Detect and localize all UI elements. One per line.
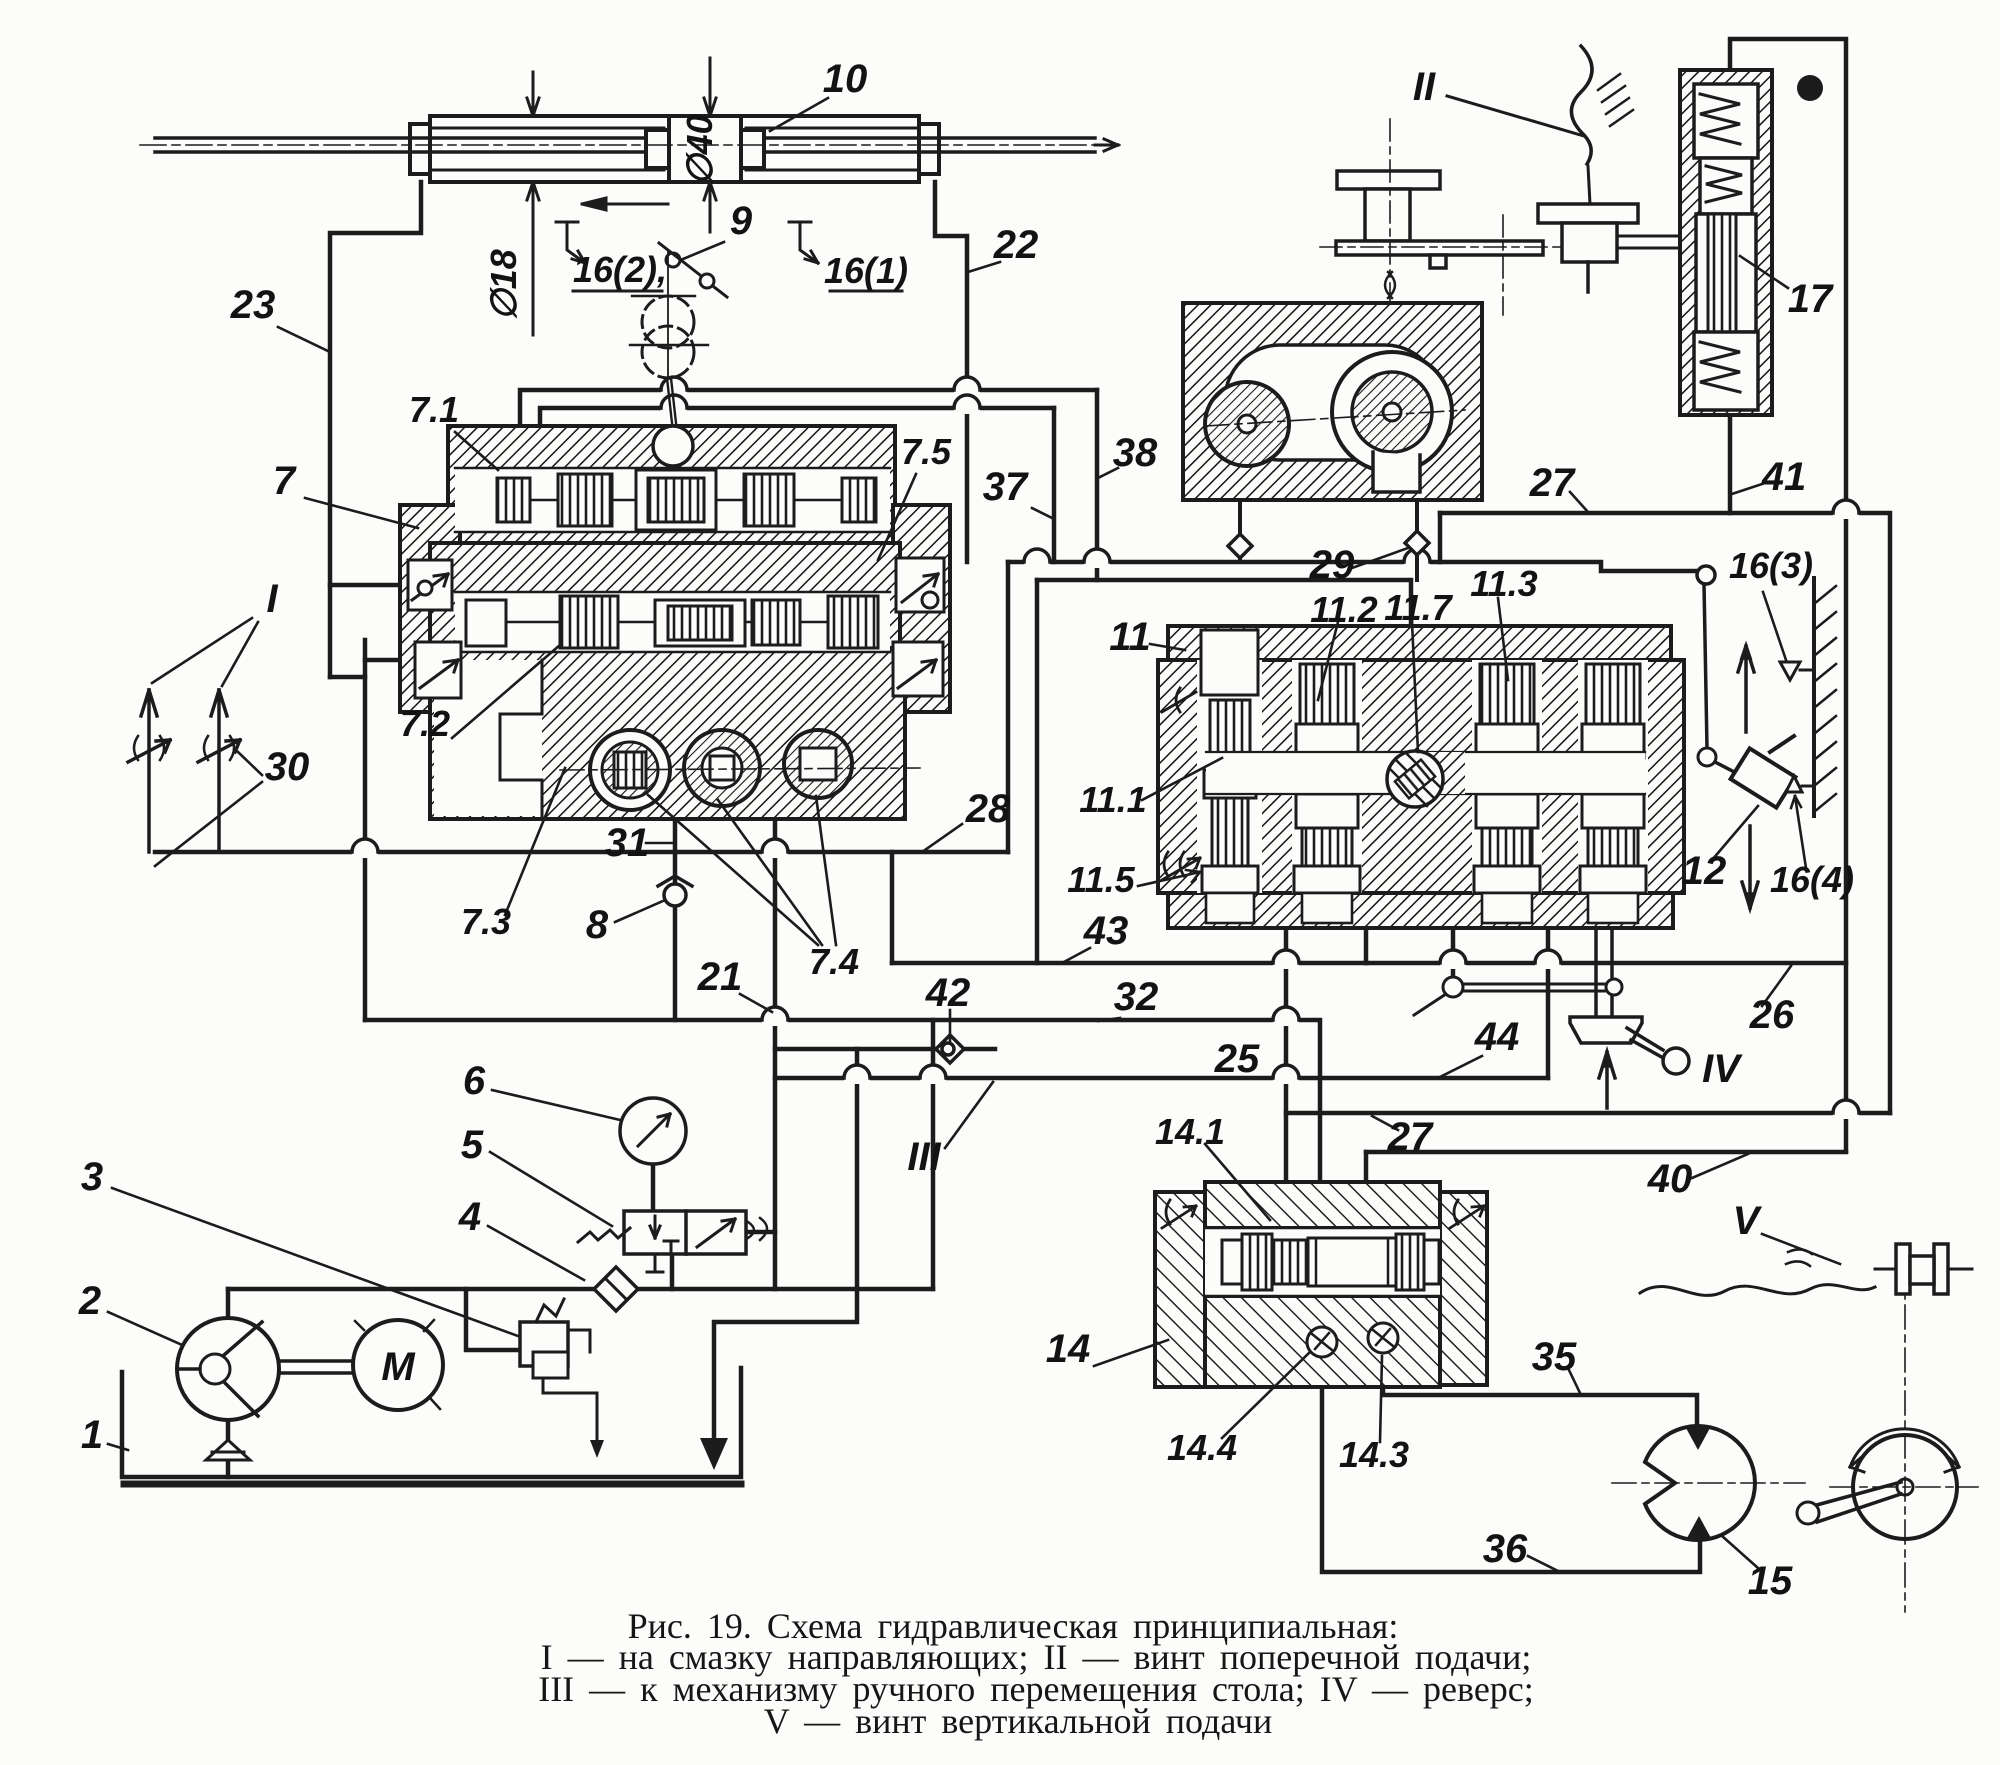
feed screw II assembly <box>1336 46 1696 292</box>
block 14 pilot balls 14.4 14.3 <box>1307 1323 1398 1357</box>
svg-text:14.1: 14.1 <box>1155 1111 1225 1152</box>
pipe lower left corner to vertical 365 <box>330 675 365 680</box>
wire vertical 365 <box>363 640 368 1020</box>
svg-text:11.2: 11.2 <box>1310 589 1377 630</box>
svg-text:11.1: 11.1 <box>1079 779 1146 820</box>
svg-text:4: 4 <box>458 1195 481 1239</box>
down arrow near wall <box>1742 826 1758 908</box>
pilot valve 17 <box>1680 70 1772 415</box>
wire vertical 775 line 21 <box>773 819 778 1289</box>
svg-text:7.1: 7.1 <box>409 389 459 430</box>
dimension d40 <box>704 58 716 232</box>
pipe horizontal 562 <box>1008 562 1697 571</box>
pipe main network <box>155 39 1890 1572</box>
pipe line 32 horizontal 1020 <box>365 1020 1320 1182</box>
block 7 spool gallery row 1 <box>455 468 890 532</box>
item labels <box>78 57 1854 1603</box>
cylinder left cap <box>410 124 430 174</box>
wire vertical 857 line III <box>714 1049 857 1458</box>
pipe crossing bumps <box>352 377 1859 1119</box>
belt pulley V <box>1640 1244 1972 1295</box>
svg-text:27: 27 <box>1387 1115 1434 1159</box>
svg-text:35: 35 <box>1532 1335 1577 1379</box>
centerline of shaft <box>140 144 1120 146</box>
leader lines <box>108 96 1840 1572</box>
svg-text:V: V <box>1733 1199 1763 1243</box>
pump suction vertical <box>226 1419 231 1440</box>
svg-text:5: 5 <box>461 1123 484 1167</box>
rotary valve 7.4 circle A <box>590 730 670 810</box>
relief drain to tank <box>543 1366 597 1452</box>
oil tank 1 <box>122 1368 741 1484</box>
pump outlet vertical <box>226 1289 231 1319</box>
block 7 right extension <box>893 505 950 712</box>
svg-text:27: 27 <box>1529 461 1576 505</box>
svg-text:∅18: ∅18 <box>483 249 524 320</box>
svg-text:17: 17 <box>1788 277 1834 321</box>
cylinder right cap <box>919 124 939 174</box>
gear pump centerline <box>1205 410 1465 426</box>
svg-text:7.4: 7.4 <box>809 941 859 982</box>
pipe horizontal 580 <box>1037 580 1411 626</box>
spool 11.3 <box>1480 664 1534 724</box>
svg-text:7.3: 7.3 <box>461 901 511 942</box>
svg-text:11.3: 11.3 <box>1470 563 1537 604</box>
pipe line 40 horizontal 1152 <box>1366 1150 1846 1155</box>
svg-text:11: 11 <box>1109 615 1151 659</box>
throttle port lower left <box>415 642 461 698</box>
pipe line 42 horizontal 1049 <box>775 1047 995 1052</box>
svg-text:40: 40 <box>1647 1157 1693 1201</box>
svg-text:I: I <box>266 577 278 621</box>
block 11 spool channels <box>1197 630 1648 893</box>
shaft arrow right end <box>1095 139 1118 151</box>
wire vertical 1366 into block 14 <box>1364 1152 1369 1182</box>
block 7 lower slab <box>430 648 905 819</box>
svg-text:11.5: 11.5 <box>1067 859 1135 900</box>
block 7 middle slab <box>430 543 900 648</box>
pipe line 27 lower horizontal 1113 <box>1286 1111 1890 1116</box>
svg-text:42: 42 <box>925 971 971 1015</box>
piston rod shaft <box>155 138 1095 152</box>
block 7 top slab <box>448 426 895 543</box>
spool 11.2 <box>1300 664 1354 724</box>
wire vertical 1286 <box>1284 928 1289 1182</box>
cylinder body <box>430 116 919 182</box>
block 7 lower cavity <box>434 660 542 816</box>
svg-text:16(3): 16(3) <box>1729 545 1813 586</box>
pipe top right loop over valve 17 <box>1730 39 1846 1151</box>
svg-text:16(1): 16(1) <box>824 250 908 291</box>
valve block 7 <box>400 426 950 819</box>
hydraulic motor 15 <box>1645 1426 1755 1540</box>
valve block 11 <box>1158 626 1684 928</box>
wire vertical 1054 line 37 <box>1052 408 1057 562</box>
piston flank right <box>741 130 764 168</box>
lubrication outlets I with throttles 30 <box>128 690 240 852</box>
pipe stub lower port block7 <box>365 658 404 663</box>
wire vertical 933 <box>931 1020 936 1289</box>
wire vertical 892 <box>890 852 895 963</box>
svg-text:25: 25 <box>1214 1037 1260 1081</box>
line 35 pipe <box>1383 1353 1697 1426</box>
svg-text:6: 6 <box>463 1059 486 1103</box>
grounding bracket 16(2) <box>556 222 585 263</box>
suction filter <box>206 1440 250 1460</box>
valve rod to lever IV <box>1596 928 1612 1015</box>
svg-text:1: 1 <box>81 1413 103 1457</box>
wire vertical 1037 <box>1035 580 1040 963</box>
spool 11.1 <box>1201 630 1258 695</box>
reverse lever IV <box>1570 1017 1689 1108</box>
gear pump outlet ports <box>1228 500 1429 580</box>
pipe line 25 horizontal 1078 <box>775 1076 1548 1081</box>
svg-text:IV: IV <box>1702 1047 1743 1091</box>
pressure gauge 6 <box>620 1098 686 1164</box>
link to lever 12 arm <box>1414 994 1446 1015</box>
svg-text:32: 32 <box>1114 975 1159 1019</box>
pipe inner box top 408 <box>540 408 1054 426</box>
svg-text:16(2),: 16(2), <box>573 249 667 290</box>
wire vertical 675 with valve 8 <box>673 819 678 1020</box>
relief valve 3 <box>520 1299 590 1378</box>
svg-text:7.2: 7.2 <box>400 703 450 744</box>
svg-text:14: 14 <box>1046 1327 1091 1371</box>
throttle port lower right <box>893 642 943 696</box>
block 7 spool gallery row 2 <box>455 592 890 652</box>
pump unit 2 <box>177 1318 279 1420</box>
wire vertical 1548 line 44 <box>1546 928 1551 1078</box>
svg-text:26: 26 <box>1749 993 1795 1037</box>
svg-text:9: 9 <box>730 199 753 243</box>
svg-text:M: M <box>381 1345 416 1389</box>
svg-text:23: 23 <box>230 283 276 327</box>
throttle port upper right <box>896 558 944 612</box>
svg-text:44: 44 <box>1474 1015 1520 1059</box>
svg-text:37: 37 <box>983 465 1029 509</box>
block 11 middle gallery <box>1206 752 1645 794</box>
screw hole dot top right <box>1797 75 1823 101</box>
svg-text:III: III <box>907 1135 941 1179</box>
check valve 8 <box>658 876 692 906</box>
svg-text:7: 7 <box>273 459 297 503</box>
svg-text:30: 30 <box>265 745 310 789</box>
svg-text:29: 29 <box>1309 543 1355 587</box>
svg-text:10: 10 <box>823 57 868 101</box>
dimension d18 <box>527 72 539 335</box>
centerline through rotary valves <box>560 768 920 770</box>
pipe line 27 top horizontal 513 <box>1440 513 1890 1113</box>
svg-text:II: II <box>1413 65 1436 109</box>
check valve 42 diamond <box>936 1035 964 1063</box>
cylinder bore lines <box>430 128 919 170</box>
caption <box>538 1606 1534 1741</box>
gear pump unit top right <box>1183 303 1482 500</box>
wire stub 1366 under block 11 <box>1364 928 1369 963</box>
crank pulley <box>1797 1429 1959 1539</box>
svg-text:28: 28 <box>965 787 1011 831</box>
block 11 channel feet <box>1206 893 1638 923</box>
pump pressure line horizontal 1289 <box>228 1287 933 1292</box>
svg-text:3: 3 <box>81 1155 103 1199</box>
svg-text:16(4): 16(4) <box>1770 859 1854 900</box>
link bar with ball joints <box>1453 984 1615 991</box>
svg-text:36: 36 <box>1483 1527 1528 1571</box>
electric motor M <box>279 1320 443 1410</box>
pipe right of cylinder down <box>935 182 967 562</box>
svg-text:14.3: 14.3 <box>1339 1434 1409 1475</box>
block 7 left extension <box>400 505 460 712</box>
motion arrow left <box>582 198 668 210</box>
cylinder 10 assembly <box>155 116 1118 182</box>
guide wall 16(3) 16(4) <box>1780 578 1836 816</box>
wire line 41 vertical 1730 <box>1728 415 1733 513</box>
pipe left box from cylinder <box>330 182 421 677</box>
svg-text:V — винт вертикальной подачи: V — винт вертикальной подачи <box>764 1701 1273 1741</box>
ball poppet on block 7 top <box>653 426 693 466</box>
wire vertical 1453 to link bar <box>1451 928 1456 980</box>
svg-text:31: 31 <box>605 821 650 865</box>
pipe line 28 horizontal 852 <box>155 850 1008 855</box>
svg-text:8: 8 <box>586 903 609 947</box>
rotary valve 7.4 circle B <box>684 730 760 806</box>
svg-text:7.5: 7.5 <box>901 431 952 472</box>
svg-text:22: 22 <box>993 223 1039 267</box>
pipe line 43 horizontal 963 <box>892 961 1846 966</box>
pipe inner box top 390 <box>520 390 1097 426</box>
line 36 pipe <box>1322 1357 1700 1572</box>
rotary valve 7.4 circle C <box>784 730 852 798</box>
svg-text:12: 12 <box>1682 849 1727 893</box>
spool 11.4 <box>1586 664 1640 724</box>
svg-text:38: 38 <box>1113 431 1158 475</box>
grounding bracket 16(1) <box>789 222 818 263</box>
pilot valve 5 <box>578 1211 767 1272</box>
relief drain arrow <box>590 1440 604 1458</box>
block 11 left port ticks <box>1162 688 1200 880</box>
block 14 side throttle marks <box>1162 1200 1484 1228</box>
lever 12 linkage <box>1601 562 1795 808</box>
svg-text:∅40: ∅40 <box>679 114 720 185</box>
wire vertical 1440 <box>1438 513 1443 562</box>
valve 5 right port to line 21 <box>746 1230 775 1235</box>
svg-text:15: 15 <box>1748 1559 1793 1603</box>
up arrow near wall <box>1738 646 1754 732</box>
wire to relief valve <box>466 1289 520 1350</box>
svg-text:11.7: 11.7 <box>1384 587 1453 628</box>
piston center block <box>669 116 741 182</box>
filter 4 diamond <box>594 1267 638 1311</box>
pipe upper left port stub <box>330 583 404 588</box>
rotary plug 11.7 <box>1387 751 1443 807</box>
svg-text:41: 41 <box>1761 455 1807 499</box>
cam follower 9 <box>630 243 727 432</box>
suction below filter <box>226 1462 231 1477</box>
svg-text:43: 43 <box>1083 909 1129 953</box>
tank drain arrow big <box>700 1438 728 1470</box>
svg-text:21: 21 <box>697 955 743 999</box>
svg-text:14.4: 14.4 <box>1167 1427 1237 1468</box>
piston flank left <box>646 130 669 168</box>
throttle port upper left <box>408 560 452 610</box>
wire vertical 1008 <box>1006 562 1011 852</box>
svg-text:2: 2 <box>78 1279 101 1323</box>
wire vertical 1097 line 38 <box>1095 390 1100 580</box>
valve 5 tank stub <box>670 1254 675 1289</box>
gauge stem <box>651 1164 656 1211</box>
valve block 14 <box>1155 1182 1487 1387</box>
ball joints on link bar <box>1443 977 1622 997</box>
